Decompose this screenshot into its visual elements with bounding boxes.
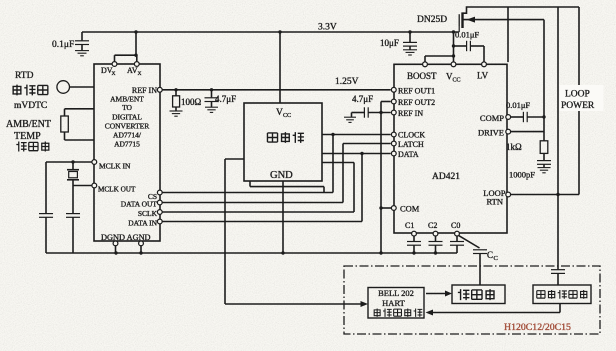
svg-text:REF OUT2: REF OUT2: [398, 98, 435, 107]
svg-text:0.01μF: 0.01μF: [455, 30, 479, 40]
svg-text:DRIVE: DRIVE: [478, 128, 504, 138]
svg-text:MCLK OUT: MCLK OUT: [98, 186, 136, 194]
svg-text:C1: C1: [405, 221, 414, 230]
svg-text:1kΩ: 1kΩ: [506, 142, 522, 152]
svg-text:SCLK: SCLK: [138, 209, 158, 218]
svg-text:RTN: RTN: [487, 197, 504, 207]
svg-text:LOOP: LOOP: [565, 90, 590, 100]
svg-text:10μF: 10μF: [380, 38, 399, 48]
svg-text:AD7714/: AD7714/: [113, 131, 142, 140]
svg-text:DATA: DATA: [398, 150, 419, 159]
svg-text:C2: C2: [428, 221, 437, 230]
svg-text:CC: CC: [453, 78, 461, 84]
svg-text:0.01μF: 0.01μF: [506, 100, 530, 110]
svg-text:REF OUT1: REF OUT1: [398, 86, 435, 95]
svg-text:H120C12/20C15: H120C12/20C15: [504, 322, 571, 333]
svg-text:AD421: AD421: [432, 172, 460, 182]
svg-text:RTD: RTD: [15, 71, 34, 81]
svg-text:X: X: [138, 71, 142, 77]
svg-text:3.3V: 3.3V: [318, 23, 337, 33]
svg-text:DGND AGND: DGND AGND: [101, 233, 151, 242]
svg-text:AD7715: AD7715: [114, 140, 140, 149]
svg-text:4.7μF: 4.7μF: [352, 94, 373, 104]
svg-text:TO: TO: [122, 103, 132, 112]
svg-text:COMP: COMP: [480, 113, 504, 123]
svg-text:C0: C0: [451, 221, 460, 230]
svg-text:0.1μF: 0.1μF: [52, 40, 74, 50]
svg-text:LV: LV: [477, 71, 489, 81]
svg-text:TEMP: TEMP: [14, 131, 41, 142]
svg-text:CLOCK: CLOCK: [398, 131, 425, 140]
svg-text:AMB/ENT: AMB/ENT: [6, 119, 51, 130]
svg-text:HART: HART: [382, 298, 405, 308]
svg-text:AV: AV: [127, 66, 138, 75]
svg-text:LATCH: LATCH: [398, 140, 424, 149]
svg-text:100Ω: 100Ω: [181, 97, 202, 107]
svg-text:DATA IN: DATA IN: [128, 219, 157, 228]
svg-text:CONVERTER: CONVERTER: [105, 122, 150, 131]
svg-text:POWER: POWER: [561, 101, 595, 111]
svg-text:MCLK IN: MCLK IN: [99, 162, 131, 171]
svg-text:1.25V: 1.25V: [335, 77, 359, 87]
svg-text:GND: GND: [270, 170, 293, 181]
svg-text:BOOST: BOOST: [407, 71, 437, 81]
svg-text:mVDTC: mVDTC: [14, 101, 47, 111]
svg-text:4.7μF: 4.7μF: [215, 94, 236, 104]
svg-text:CC: CC: [283, 113, 291, 119]
svg-text:C: C: [494, 255, 498, 262]
svg-text:COM: COM: [400, 204, 420, 214]
svg-text:DN25D: DN25D: [417, 15, 447, 25]
svg-text:C: C: [487, 250, 493, 260]
svg-text:V: V: [276, 108, 283, 118]
svg-text:X: X: [112, 71, 116, 77]
svg-text:1000pF: 1000pF: [509, 170, 535, 180]
svg-text:DATA OUT: DATA OUT: [121, 200, 158, 209]
svg-text:REF IN: REF IN: [398, 109, 423, 118]
svg-text:BELL 202: BELL 202: [378, 288, 414, 298]
svg-text:DIGITAL: DIGITAL: [112, 113, 142, 122]
